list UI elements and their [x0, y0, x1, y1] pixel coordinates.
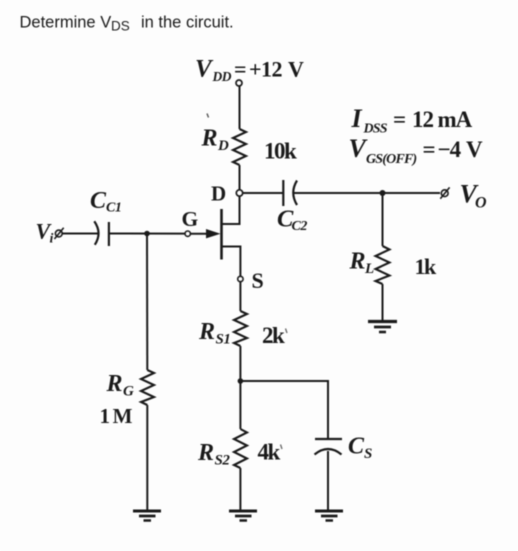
resistor RD label: [201, 126, 230, 155]
node G terminal: [185, 231, 190, 236]
svg-text:C1: C1: [106, 201, 121, 216]
svg-text:C: C: [90, 188, 107, 214]
capacitor CS: [315, 439, 343, 455]
svg-text:=: =: [423, 137, 436, 162]
wire CC1 to G: [110, 233, 186, 235]
wire RD to node D: [239, 165, 241, 190]
node junction at RL: [380, 190, 386, 196]
IDSS label: [351, 104, 473, 137]
svg-text:R: R: [201, 126, 218, 152]
svg-text:=: =: [234, 57, 247, 82]
node Vi terminal: [54, 228, 63, 239]
node Vi label: [36, 219, 54, 247]
wire VDD to RD: [239, 86, 241, 129]
svg-text:DD: DD: [212, 69, 232, 84]
svg-text:G: G: [123, 384, 134, 400]
title text: [20, 14, 234, 34]
svg-text:S: S: [364, 446, 372, 462]
svg-text:S: S: [252, 268, 264, 293]
wire node D to CC2: [243, 192, 283, 194]
wire junction down to RG: [146, 234, 148, 371]
ground for RS2: [229, 511, 257, 521]
resistor RG: [141, 370, 154, 405]
svg-text:C2: C2: [292, 219, 308, 234]
svg-text:=: =: [393, 107, 406, 132]
resistor RL: [376, 246, 390, 284]
svg-text:DSS: DSS: [363, 122, 388, 137]
node junction RS1-RS2: [238, 378, 244, 384]
resistor RS1 label: [198, 319, 230, 348]
wire Vi to CC1: [63, 233, 98, 235]
svg-text:12: 12: [412, 107, 434, 132]
svg-text:DS: DS: [111, 18, 130, 33]
svg-text:C: C: [348, 434, 365, 460]
resistor RS2 label: [197, 440, 230, 469]
resistor RS1: [234, 311, 247, 346]
wire S to RS1: [239, 282, 241, 311]
svg-text:GS(OFF): GS(OFF): [366, 152, 417, 167]
node VDD label: [195, 56, 304, 85]
wire RL to ground: [382, 284, 384, 321]
svg-text:4k: 4k: [258, 440, 281, 465]
svg-text:S2: S2: [215, 453, 231, 469]
node D terminal: [236, 190, 242, 196]
svg-text:Determine V: Determine V: [20, 14, 112, 32]
wire RS2 to ground: [239, 468, 241, 511]
svg-text:V: V: [195, 56, 214, 83]
svg-text:R: R: [349, 249, 366, 275]
svg-text:V: V: [288, 57, 304, 82]
svg-text:2k: 2k: [262, 323, 285, 348]
node Vo label: [460, 180, 488, 212]
svg-text:D: D: [211, 182, 226, 206]
capacitor CC1: [94, 221, 109, 246]
svg-text:in the circuit.: in the circuit.: [141, 14, 234, 32]
node junction at RG: [144, 231, 150, 237]
node S terminal: [238, 276, 243, 281]
ground for CS: [315, 511, 343, 521]
VGS(OFF) label: [349, 134, 484, 167]
wire RL junction down: [382, 193, 384, 246]
ground for RG: [133, 511, 161, 521]
svg-text:R: R: [197, 440, 214, 466]
wire junction to CS: [240, 381, 328, 439]
node VDD terminal: [236, 80, 242, 86]
transistor Q1 JFET: [190, 196, 240, 276]
svg-text:V: V: [466, 137, 483, 162]
resistor RG label: [106, 371, 135, 400]
capacitor CS label: [348, 434, 372, 463]
capacitor CC1 label: [90, 188, 121, 216]
svg-text:R: R: [198, 319, 215, 345]
wire CC2 to Vo: [294, 192, 440, 194]
svg-text:L: L: [364, 261, 374, 277]
wire junction down to RS2: [239, 381, 241, 429]
resistor RS2: [234, 429, 247, 468]
svg-text:+12: +12: [249, 57, 283, 82]
svg-text:R: R: [106, 371, 123, 397]
wire CS to ground: [327, 451, 329, 511]
svg-text:O: O: [475, 195, 487, 212]
svg-text:mA: mA: [438, 107, 473, 132]
svg-text:1 M: 1 M: [100, 404, 133, 428]
capacitor CC2 label: [277, 206, 307, 235]
svg-text:G: G: [182, 207, 199, 231]
capacitor CC2: [283, 180, 297, 206]
wire RG to ground: [146, 405, 148, 511]
ground for RL: [368, 322, 397, 333]
svg-text:10k: 10k: [264, 139, 297, 164]
scan tick after 4k value: [281, 445, 283, 450]
svg-text:−4: −4: [438, 137, 462, 162]
svg-text:1k: 1k: [415, 254, 438, 279]
svg-text:I: I: [351, 104, 363, 133]
wire RS1 to junction: [239, 346, 241, 381]
resistor RL label: [349, 249, 375, 278]
scan tick near RD: [207, 114, 209, 118]
node Vo terminal: [440, 187, 449, 198]
resistor RD: [233, 129, 246, 165]
svg-text:i: i: [50, 232, 54, 247]
svg-text:S1: S1: [216, 332, 231, 348]
svg-text:D: D: [217, 138, 229, 154]
scan tick after 2k value: [286, 329, 288, 334]
